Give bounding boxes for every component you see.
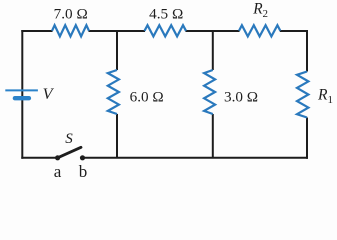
- wire top segment right: [280, 30, 308, 32]
- wire bottom left of switch: [21, 157, 57, 159]
- wire top segment between 4.5 and R2: [186, 30, 240, 32]
- svg-text:6.0 Ω: 6.0 Ω: [130, 88, 164, 105]
- switch contact a: [55, 155, 60, 160]
- wire top segment between 7.0 and 4.5: [89, 30, 146, 32]
- svg-text:S: S: [65, 131, 73, 147]
- wire left side: [21, 30, 23, 159]
- svg-text:7.0 Ω: 7.0 Ω: [54, 6, 88, 23]
- wire middle branch 2 lower: [212, 114, 214, 158]
- svg-text:R1: R1: [317, 86, 333, 105]
- wire middle branch 1 lower: [116, 114, 118, 158]
- wire right side lower: [306, 118, 308, 159]
- switch contact b: [80, 155, 85, 160]
- svg-text:V: V: [43, 85, 55, 103]
- battery V top plate: [5, 89, 38, 91]
- resistor 7.0 ohm: [52, 25, 89, 36]
- resistor R2: [239, 25, 280, 36]
- svg-text:a: a: [54, 162, 62, 181]
- wire middle branch 1 upper: [116, 31, 118, 70]
- resistor R1: [297, 72, 308, 118]
- svg-text:3.0 Ω: 3.0 Ω: [224, 88, 258, 105]
- battery V bottom plate: [15, 96, 29, 100]
- wire bottom right of switch: [83, 157, 309, 159]
- wire top segment left: [21, 30, 52, 32]
- wire right side upper: [306, 30, 308, 72]
- svg-text:R2: R2: [252, 1, 268, 20]
- wire middle branch 2 upper: [212, 31, 214, 70]
- resistor 3.0 ohm: [204, 70, 215, 114]
- resistor 6.0 ohm: [108, 70, 119, 114]
- svg-text:4.5 Ω: 4.5 Ω: [149, 6, 183, 23]
- switch blade S: [58, 147, 81, 158]
- svg-text:b: b: [79, 162, 88, 181]
- resistor 4.5 ohm: [145, 25, 187, 36]
